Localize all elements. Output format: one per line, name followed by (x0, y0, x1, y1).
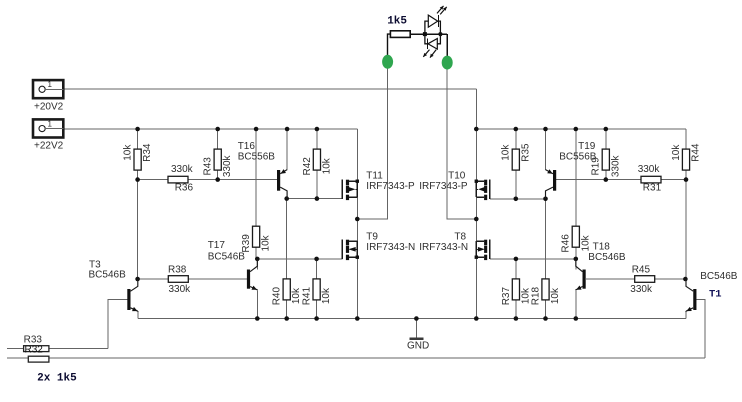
wire R41 bottom (316, 300, 318, 319)
wire R43 leads (217, 129, 219, 150)
wire T18 collector stub (575, 259, 577, 269)
svg-text:R32: R32 (25, 344, 44, 355)
junction (215, 127, 220, 132)
svg-text:R45: R45 (632, 265, 651, 276)
junction (604, 127, 609, 132)
resistor R35 (501, 143, 532, 170)
junction (285, 127, 290, 132)
junction (684, 177, 689, 182)
resistor R43 (203, 149, 234, 177)
wire T3 emitter (137, 311, 139, 319)
ground (407, 339, 429, 352)
wire LED right drop to pad (446, 34, 448, 56)
svg-text:R31: R31 (643, 182, 662, 193)
svg-text:R37: R37 (501, 286, 512, 305)
resistor R46 (561, 226, 592, 252)
resistor R41 (302, 279, 333, 305)
svg-text:+22V2: +22V2 (34, 141, 64, 152)
transistor T19 BC556B (546, 169, 557, 199)
terminal X+22V2 (33, 119, 64, 151)
wire R46 bottom lead (575, 247, 577, 259)
junction (543, 127, 548, 132)
svg-text:330k: 330k (171, 164, 194, 175)
resistor R45 (630, 265, 654, 295)
wire T17 emitter (256, 290, 258, 318)
junction (574, 257, 579, 262)
svg-text:R41: R41 (302, 286, 313, 305)
wire R40 bottom (286, 300, 288, 319)
wire +20V2 rail (63, 88, 476, 90)
junction (314, 257, 319, 262)
junction (514, 257, 519, 262)
svg-text:10k: 10k (321, 287, 332, 304)
wire R31 net to R44 column (606, 179, 686, 181)
svg-text:BC556B: BC556B (238, 151, 276, 162)
svg-text:330k: 330k (638, 164, 661, 175)
wire GND stub (415, 319, 417, 339)
junction (474, 217, 479, 222)
resistor R38 (168, 265, 191, 295)
wire left output node (356, 197, 358, 241)
svg-text:R18: R18 (530, 286, 541, 305)
wire R33 to T3 base (49, 348, 108, 350)
wire T16 collector to T11 gate (287, 198, 343, 200)
junction (683, 277, 688, 282)
svg-text:T8: T8 (454, 232, 466, 243)
wire T17 collector net (257, 258, 342, 260)
resistor R18 (530, 279, 561, 305)
wire R41 top lead (316, 259, 318, 279)
svg-text:R39: R39 (241, 234, 252, 253)
node B junction dot (438, 32, 442, 36)
junction (543, 316, 548, 321)
wire R18 bottom (545, 300, 547, 319)
wire R32 long net to T1 base (49, 357, 705, 359)
wire T19 base net to R19 (556, 179, 606, 181)
wire R42 leads (316, 129, 318, 150)
svg-text:10k: 10k (550, 287, 561, 304)
junction (314, 316, 319, 321)
junction (604, 177, 609, 182)
svg-text:10k: 10k (261, 234, 272, 251)
wire R45 net (586, 278, 686, 280)
wire T17 collector stub (256, 259, 258, 269)
svg-text:2x 1k5: 2x 1k5 (37, 373, 77, 385)
resistor R44 (671, 143, 702, 170)
wire upper LED frame (425, 21, 441, 34)
junction (135, 277, 140, 282)
wire T3 base feed (108, 300, 128, 349)
wire bottom rail (138, 318, 686, 320)
svg-text:10k: 10k (123, 144, 134, 161)
svg-text:330k: 330k (169, 284, 192, 295)
svg-text:R40: R40 (272, 286, 283, 305)
svg-text:IRF7343-P: IRF7343-P (366, 181, 415, 192)
pad P1 (green) (382, 55, 393, 69)
junction (574, 316, 579, 321)
wire R39 bottom lead (255, 247, 257, 259)
wire right output node (475, 197, 477, 241)
svg-text:10k: 10k (321, 157, 332, 174)
svg-text:1: 1 (48, 119, 53, 128)
pad P2 (green) (442, 56, 453, 70)
svg-text:10k: 10k (501, 144, 512, 161)
svg-text:R44: R44 (691, 143, 702, 162)
svg-text:330k: 330k (630, 284, 653, 295)
junction (514, 127, 519, 132)
svg-text:T17: T17 (208, 240, 226, 251)
resistor R34 (123, 143, 154, 170)
junction (215, 177, 220, 182)
wire T8 gate net (490, 258, 576, 260)
junction (135, 177, 140, 182)
wire T10 drain from rail (475, 129, 477, 181)
wire base net R36/R43 to T16 (138, 179, 277, 181)
wire R40 feed (286, 199, 288, 280)
mosfet T9 IRF7343-N (342, 240, 359, 260)
wire R38 net T3 to T17 (138, 278, 247, 280)
svg-text:BC546B: BC546B (588, 252, 626, 263)
junction (355, 316, 360, 321)
svg-text:IRF7343-P: IRF7343-P (419, 181, 468, 192)
led D1 upper (428, 15, 438, 27)
led D2 emission arrows (423, 50, 436, 58)
junction (284, 316, 289, 321)
svg-text:BC556B: BC556B (559, 151, 597, 162)
resistor R40 (272, 279, 303, 305)
wire R46 feed from rail (575, 129, 577, 227)
wire T1 base drop (696, 300, 705, 358)
wire T18 emitter (575, 290, 577, 318)
svg-text:T9: T9 (366, 232, 378, 243)
wire +22V2 rail (63, 128, 357, 130)
svg-text:10k: 10k (671, 144, 682, 161)
wire T16 emitter feed (286, 129, 288, 170)
svg-text:10k: 10k (580, 234, 591, 251)
wire +20V2 drop to right rail (475, 89, 477, 129)
resistor R32 (28, 356, 49, 362)
wire 1k5 left lead (388, 34, 391, 55)
resistor 1k5 annotation (387, 15, 410, 37)
svg-text:T1: T1 (709, 288, 722, 300)
svg-text:BC546B: BC546B (89, 270, 127, 281)
junction (284, 196, 289, 201)
transistor T3 BC546B (127, 279, 138, 311)
wire T8 source to rail (475, 257, 477, 318)
junction (414, 316, 419, 321)
wire output to LED right (447, 34, 476, 219)
junction (315, 196, 320, 201)
junction (474, 316, 479, 321)
svg-text:330k: 330k (610, 154, 621, 177)
svg-text:BC546B: BC546B (700, 271, 738, 282)
junction (355, 217, 360, 222)
svg-text:R38: R38 (168, 265, 187, 276)
svg-text:R46: R46 (561, 234, 572, 253)
mosfet T8 IRF7343-N (475, 240, 490, 260)
svg-text:R36: R36 (175, 182, 194, 193)
wire 1k5 right to LEDs (410, 33, 447, 35)
svg-text:330k: 330k (222, 154, 233, 177)
junction (255, 316, 260, 321)
wire R19 leads (605, 129, 607, 150)
junction (514, 316, 519, 321)
wire right rail (476, 128, 686, 130)
svg-text:IRF7343-N: IRF7343-N (419, 242, 468, 253)
wire output to LED left (357, 34, 387, 219)
wire R39 feed from rail (255, 129, 257, 227)
transistor T1 BC546B (686, 279, 696, 311)
svg-text:GND: GND (407, 340, 429, 351)
terminal X+20V2 (33, 80, 64, 112)
svg-text:+20V2: +20V2 (34, 101, 64, 112)
svg-text:R43: R43 (203, 157, 214, 176)
junction (315, 127, 320, 132)
junction (254, 127, 259, 132)
node A square junction (423, 32, 427, 36)
svg-text:BC546B: BC546B (208, 251, 246, 262)
wire R37 top lead (515, 259, 517, 279)
svg-text:T11: T11 (366, 170, 383, 181)
svg-text:T10: T10 (448, 170, 466, 181)
transistor T17 BC546B (247, 259, 257, 290)
junction (574, 127, 579, 132)
junction (543, 197, 548, 202)
wire +22V2 rail corner down to T11 drain (356, 129, 358, 181)
wire T19 emitter feed (545, 129, 547, 170)
resistor R42 (302, 149, 333, 175)
wire input R32 left (7, 357, 28, 359)
junction (135, 127, 140, 132)
svg-text:T3: T3 (89, 259, 101, 270)
wire R44 column (685, 170, 687, 279)
junction (514, 197, 519, 202)
svg-text:R34: R34 (142, 143, 153, 162)
svg-text:IRF7343-N: IRF7343-N (366, 242, 415, 253)
resistor R31 (638, 164, 662, 194)
svg-text:R42: R42 (302, 157, 313, 176)
resistor R37 (501, 279, 532, 305)
wire T10 gate net (490, 198, 546, 200)
svg-text:1: 1 (48, 80, 53, 89)
wire R37 bottom (515, 300, 517, 319)
junction (255, 257, 260, 262)
transistor T18 BC546B (576, 259, 586, 290)
svg-text:1k5: 1k5 (387, 15, 407, 27)
svg-text:R35: R35 (520, 143, 531, 162)
resistor R33 (24, 335, 49, 352)
wire input R33 left (7, 348, 24, 350)
wire right rail down to R44 (685, 129, 687, 150)
mosfet T11 IRF7343-P (342, 180, 359, 201)
resistor R39 (241, 226, 272, 252)
wire R35 leads (515, 129, 517, 150)
led D1 emission arrows (437, 6, 447, 15)
junction (474, 127, 479, 132)
wire T1 emitter (685, 311, 687, 319)
resistor R19 (591, 149, 622, 177)
wire R34 column (137, 129, 139, 150)
led D2 lower (428, 39, 438, 50)
wire T9 source to rail (356, 257, 358, 318)
mosfet T10 IRF7343-P (475, 180, 490, 201)
wire lower LED frame (425, 34, 441, 44)
wire R18 feed (545, 199, 547, 279)
transistor T16 BC556B (277, 169, 287, 198)
resistor R36 (168, 164, 194, 194)
